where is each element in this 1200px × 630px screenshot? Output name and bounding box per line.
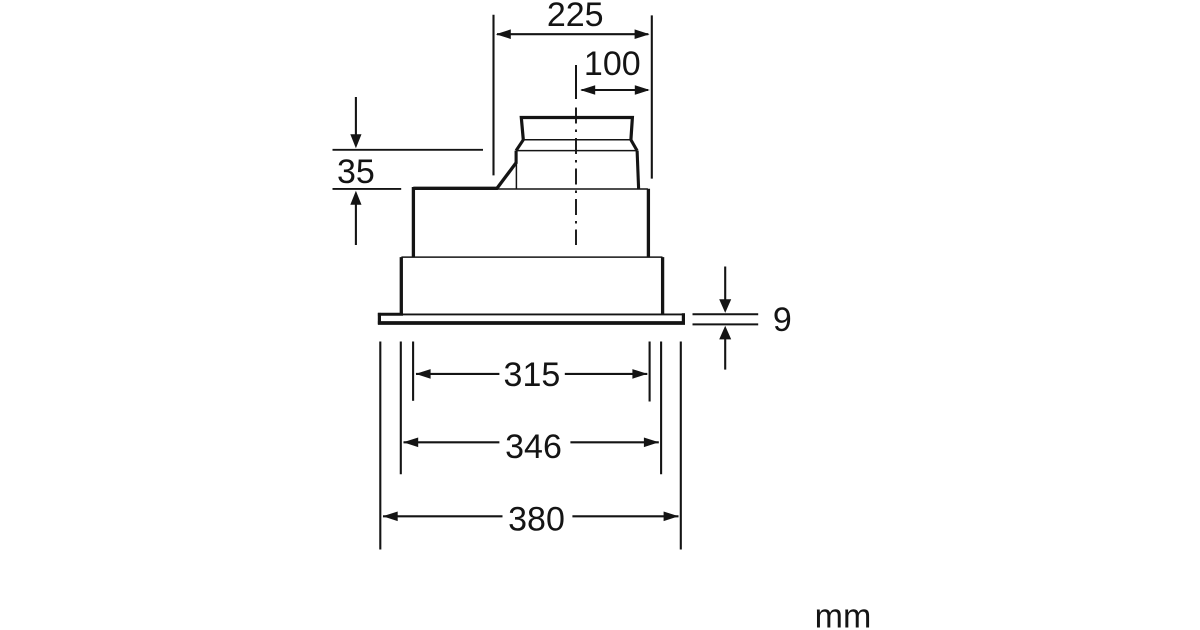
duct collar lip bottom thin line [523, 139, 631, 141]
arrowhead 35 down [350, 134, 361, 148]
svg-text:mm: mm [815, 597, 872, 630]
arrowhead 35 up [350, 191, 361, 205]
duct collar lip top [521, 118, 632, 140]
hood top edge thick [413, 187, 498, 190]
arrowhead 380 left [383, 512, 398, 522]
dim 9 upper arrow line [724, 267, 726, 301]
dim 225 right extension line [651, 15, 653, 178]
arrowhead 315 right [632, 369, 647, 379]
arrowhead 346 left [403, 438, 418, 448]
duct collar taper right [631, 140, 637, 151]
centerline dash-dot [575, 108, 577, 246]
duct collar taper left [516, 140, 523, 151]
arrowhead 9 down [719, 299, 731, 313]
hood second tier right edge [661, 257, 664, 314]
dim 315 left extension line [412, 342, 414, 401]
svg-text:225: 225 [547, 0, 604, 34]
dim 225 left extension line [492, 15, 494, 176]
arrowhead 225 left [496, 29, 511, 39]
dim 9 lower line [693, 323, 759, 325]
duct left wall thin lower [515, 163, 517, 188]
centerline solid upper segment [575, 65, 577, 99]
dim 346 right extension line [660, 342, 662, 475]
svg-text:380: 380 [508, 501, 565, 539]
dim 9 upper line [693, 313, 759, 315]
flange right end cap [682, 313, 685, 324]
dim 380 left extension line [379, 342, 381, 550]
dim 225 line [497, 33, 648, 35]
arrowhead 346 right [644, 438, 659, 448]
hood second tier left edge [400, 257, 403, 314]
dim 380 line left segment [383, 515, 503, 517]
arrowhead 100 left [580, 85, 595, 95]
dim 35 upper arrow line [355, 97, 357, 136]
svg-text:9: 9 [773, 301, 792, 339]
hood top surface thin line [498, 188, 648, 190]
duct collar taper bottom thin line [516, 150, 637, 152]
arrowhead 100 right [635, 85, 650, 95]
svg-text:346: 346 [505, 428, 562, 466]
dim 315 line right segment [565, 373, 648, 375]
arrowhead 225 right [635, 29, 650, 39]
dim 346 line left segment [404, 441, 500, 443]
dim 35 bottom reference line [333, 188, 402, 190]
dim 315 line left segment [416, 373, 499, 375]
dim 35 top reference line [333, 149, 484, 151]
dim 9 lower arrow line [724, 339, 726, 370]
dim 315 right extension line [649, 342, 651, 402]
dim 100 line [582, 89, 649, 91]
dim 380 right extension line [680, 342, 682, 550]
svg-text:100: 100 [584, 45, 641, 83]
duct right wall [637, 151, 639, 189]
dim 35 lower arrow line [355, 204, 357, 246]
arrowhead 9 up [719, 326, 731, 340]
dim 380 line right segment [572, 515, 678, 517]
flange top thin line [403, 313, 684, 315]
arrowhead 315 left [416, 369, 431, 379]
hood upper tier right edge [647, 189, 650, 257]
flange bottom thick line [378, 321, 685, 325]
svg-text:35: 35 [337, 153, 375, 191]
svg-text:315: 315 [504, 356, 561, 394]
hood upper tier left edge [412, 187, 415, 257]
duct left wall thick [515, 151, 518, 164]
flange top thick left segment [378, 313, 403, 316]
arrowhead 380 right [664, 512, 679, 522]
hood second tier top thin line [401, 256, 662, 258]
flange left end cap [378, 313, 381, 324]
hood sloped edge diagonal [497, 162, 516, 188]
dim 346 left extension line [400, 342, 402, 475]
dim 346 line right segment [570, 441, 658, 443]
